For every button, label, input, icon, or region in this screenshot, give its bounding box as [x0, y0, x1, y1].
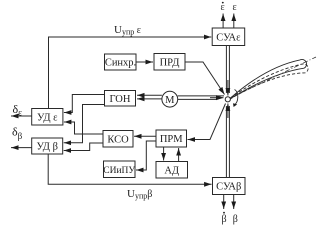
svg-text:КСО: КСО: [107, 135, 129, 146]
svg-text:УД β: УД β: [36, 142, 58, 153]
block ГОН (reference voltage generator): [105, 91, 136, 107]
svg-text:СУАβ: СУАβ: [216, 182, 241, 193]
svg-text:δε: δε: [13, 102, 23, 118]
wire УДε→СУАε (Uупр ε): [49, 37, 212, 109]
block ПРД (transmitter): [154, 54, 185, 71]
svg-text:ПРМ: ПРМ: [160, 134, 183, 145]
svg-text:СИиПУ: СИиПУ: [103, 166, 135, 176]
svg-text:АД: АД: [164, 166, 179, 177]
wire Синхр→ПРД: [136, 61, 153, 63]
output arrow ε: [233, 14, 235, 29]
svg-text:М: М: [165, 95, 175, 106]
svg-text:β: β: [222, 214, 227, 225]
label ε: [233, 2, 237, 13]
label Uупр ε: [114, 24, 141, 37]
wire ПРМ→КСО: [134, 135, 156, 137]
shaft М→ГОН double line with two arrowheads: [137, 95, 162, 99]
wire ГОН→УДβ: [64, 105, 105, 143]
block СУАβ (antenna control system β): [213, 178, 246, 195]
motor М: [162, 91, 178, 107]
svg-text:Синхр.: Синхр.: [105, 58, 136, 69]
beam axis (equisignal line): [231, 57, 316, 98]
svg-text:ε: ε: [221, 2, 225, 13]
block СИиПУ: [103, 161, 135, 178]
wire ГОН→УДε: [64, 95, 105, 113]
label β: [233, 214, 238, 225]
beam solid petal: [231, 59, 307, 98]
svg-text:Uупрβ: Uупрβ: [127, 188, 152, 201]
label δβ: [12, 125, 23, 142]
output arrow δε: [11, 115, 32, 117]
svg-text:ГОН: ГОН: [110, 94, 131, 105]
wire КСО→УДβ: [64, 143, 103, 151]
block АД (amplitude detector): [156, 162, 188, 179]
block УДβ (amplifier-demodulator β): [32, 138, 63, 154]
block ПРМ (receiver): [156, 130, 187, 147]
shaft СУАε→pivot double line: [226, 46, 229, 96]
wire ПРМ→СИиПУ: [136, 141, 156, 170]
label Uупрβ: [127, 188, 152, 201]
wire АД→ПРМ: [178, 148, 180, 162]
output arrow δβ: [11, 147, 32, 149]
svg-text:Uупр ε: Uупр ε: [114, 24, 141, 37]
block УДε (amplifier-demodulator ε): [32, 109, 63, 126]
label β̇: [222, 212, 227, 225]
rotation arc (conical scan): [233, 90, 238, 108]
svg-text:β: β: [233, 214, 238, 225]
shaft М→antenna pivot double line: [178, 96, 224, 100]
output arrow β: [233, 195, 235, 210]
block Синхр. (synchronizer): [105, 54, 137, 70]
label δε: [13, 102, 23, 118]
svg-text:СУАε: СУАε: [216, 33, 241, 44]
beam dashed petal: [231, 64, 309, 99]
svg-text:ПРД: ПРД: [160, 58, 180, 69]
svg-text:ε: ε: [233, 2, 237, 13]
label ε̇: [221, 2, 225, 13]
svg-text:δβ: δβ: [12, 125, 23, 142]
wire ПРД→antenna pivot: [185, 62, 225, 95]
wire КСО→УДε: [64, 122, 103, 134]
output arrow β̇: [223, 195, 225, 210]
block СУАε (antenna control system ε): [212, 28, 245, 46]
antenna pivot: [225, 97, 230, 102]
shaft СУАβ→pivot double line: [226, 104, 229, 178]
svg-text:УД ε: УД ε: [37, 113, 58, 124]
block КСО (error signal switch): [103, 131, 133, 148]
wire antenna→ПРМ: [188, 104, 226, 140]
output arrow ε̇: [222, 14, 224, 29]
wire ПРМ→АД: [163, 147, 165, 161]
wire УДβ→СУАβ (Uупрβ): [48, 154, 211, 184]
